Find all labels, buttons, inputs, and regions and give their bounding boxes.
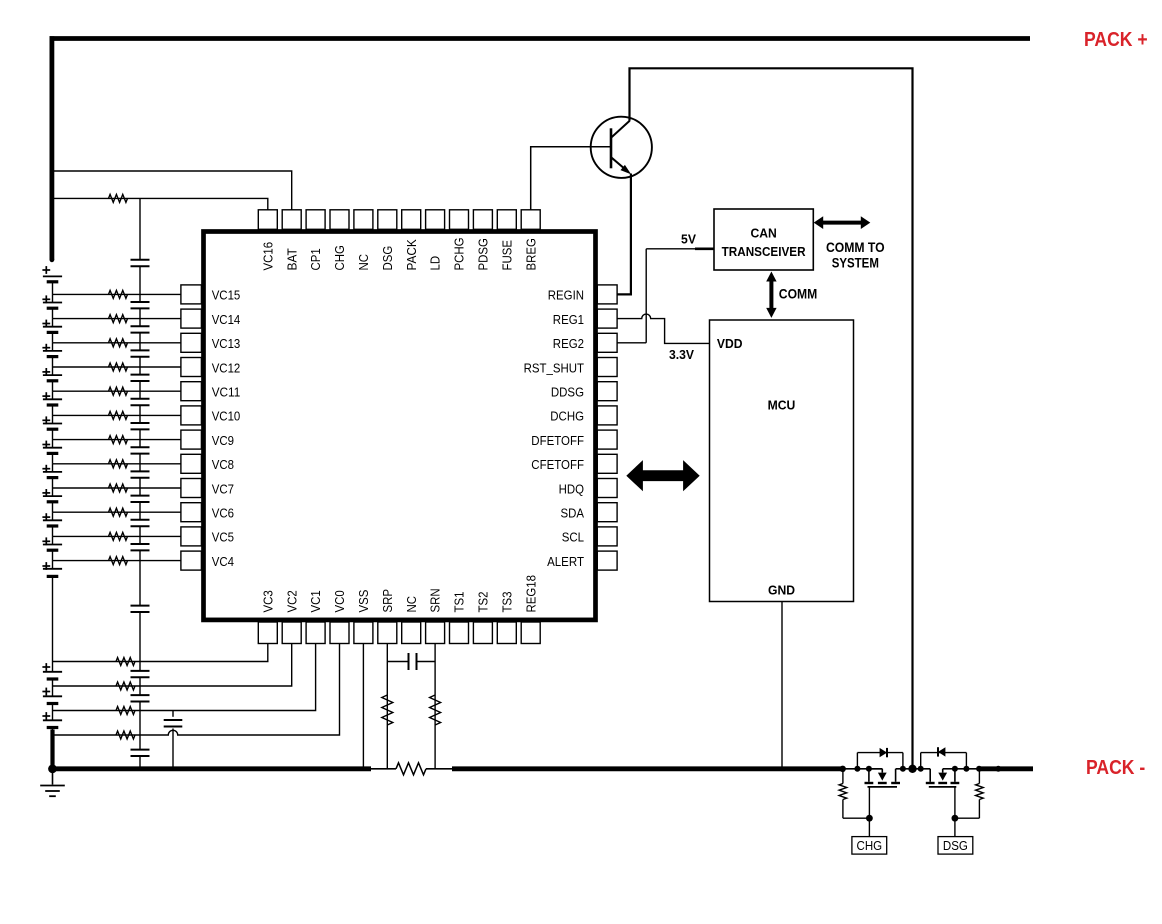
svg-text:VC1: VC1 [308, 590, 323, 612]
svg-text:PDSG: PDSG [476, 238, 491, 270]
wire: BAT net from stack top [52, 171, 292, 210]
wire: VC2 net [53, 644, 292, 687]
node: CHG diode anode tap [854, 766, 860, 772]
resistor: VC4 series input [109, 557, 128, 565]
arrow: digital interface IC-MCU (bidirectional, bold) [626, 460, 699, 491]
wire: VC12 net [53, 366, 181, 368]
pin DCHG (right) [597, 406, 617, 425]
svg-text:REGIN: REGIN [548, 288, 584, 303]
capacitor C2 (cell filter) [131, 301, 150, 303]
battery cell 5 [42, 540, 50, 542]
wire: VC5 net [53, 535, 181, 537]
svg-text:VC10: VC10 [212, 409, 241, 424]
svg-text:ALERT: ALERT [547, 554, 584, 569]
pin BAT (top) [282, 210, 301, 230]
pin ALERT (right) [597, 551, 617, 570]
pin VC14 (left) [181, 309, 202, 328]
svg-text:RST_SHUT: RST_SHUT [524, 360, 584, 375]
svg-text:SDA: SDA [561, 506, 585, 521]
svg-text:PACK +: PACK + [1084, 29, 1148, 51]
battery cell 3 [42, 666, 50, 668]
wire: DSG gate drive [954, 787, 956, 837]
svg-text:BAT: BAT [284, 248, 299, 270]
capacitor C6 (cell filter) [131, 398, 150, 400]
wire: MCU GND to rail [781, 602, 783, 769]
svg-text:MCU: MCU [768, 397, 796, 412]
battery cell 13 [42, 347, 50, 349]
svg-text:VDD: VDD [717, 336, 743, 351]
battery cell 15 [42, 298, 50, 300]
resistor: VC15 series input [109, 290, 128, 298]
pin VC0 (bottom) [330, 622, 349, 644]
pin DDSG (right) [597, 382, 617, 401]
wire: VC6 net [53, 511, 181, 513]
svg-text:VC3: VC3 [260, 590, 275, 612]
wire: stack bottom to PACK- rail (thick) [50, 730, 54, 769]
wire: PACK- rail (thick right section) [979, 766, 1033, 771]
svg-text:3.3V: 3.3V [669, 347, 694, 362]
svg-text:PACK: PACK [404, 239, 419, 270]
svg-text:COMM TO: COMM TO [826, 240, 885, 255]
capacitor C7 (cell filter) [131, 422, 150, 424]
label box CHG [852, 837, 887, 855]
svg-text:5V: 5V [681, 231, 696, 246]
transistor Q (DSG FET) [954, 769, 956, 782]
pin TS1 (bottom) [450, 622, 469, 644]
battery cell 6 [42, 516, 50, 518]
svg-text:DDSG: DDSG [551, 385, 584, 400]
battery cell 10 [42, 419, 50, 421]
pin VC7 (left) [181, 479, 202, 498]
resistor: VC2 series input [116, 682, 135, 690]
pin DSG (top) [378, 210, 397, 230]
wire: PACK+ top rail [50, 36, 1031, 41]
svg-text:DFETOFF: DFETOFF [531, 433, 584, 448]
wire: CHG gate drive [868, 787, 870, 837]
capacitor C8 (cell filter) [131, 446, 150, 448]
resistor: sense resistor RSNS [396, 763, 426, 775]
svg-text:TS1: TS1 [452, 592, 467, 613]
svg-text:VC4: VC4 [212, 554, 234, 569]
pin VC1 (bottom) [306, 622, 325, 644]
wire: SRP to rail [386, 644, 388, 769]
node: CHG gate resistor tap [840, 766, 846, 772]
svg-text:CP1: CP1 [308, 248, 323, 270]
svg-text:COMM: COMM [779, 286, 818, 301]
capacitor C12 (cell filter) [131, 543, 150, 545]
pin SRN (bottom) [426, 622, 445, 644]
pin PDSG (top) [473, 210, 492, 230]
diode: DSG FET body diode [920, 753, 922, 769]
node: DSG source tap [952, 766, 958, 772]
svg-text:VC5: VC5 [212, 530, 234, 545]
battery cell 1 [42, 715, 50, 717]
svg-text:NC: NC [356, 254, 371, 271]
arrow: COMM TO SYSTEM (bidirectional) [814, 216, 871, 229]
node: CHG diode cathode tap [900, 766, 906, 772]
battery cell 2 [42, 691, 50, 693]
capacitor C13 (cell filter) [131, 605, 150, 607]
wire: VSS to rail [362, 644, 364, 769]
wire: VC16 net [52, 198, 268, 209]
battery cell 12 [42, 371, 50, 373]
pin VC8 (left) [181, 454, 202, 473]
wire: BREG to base [531, 147, 611, 210]
wire: 5V to CAN transceiver [646, 248, 695, 250]
resistor: VC12 series input [109, 363, 128, 371]
svg-text:TS3: TS3 [499, 592, 514, 613]
resistor: SRP filter [382, 695, 393, 725]
capacitor C1 (cell filter) [131, 259, 150, 261]
diode: CHG FET body diode [856, 753, 858, 769]
capacitor C4 (cell filter) [131, 349, 150, 351]
pin VC5 (left) [181, 527, 202, 546]
svg-text:VC13: VC13 [212, 336, 241, 351]
pin VC16 (top) [258, 210, 277, 230]
svg-text:TRANSCEIVER: TRANSCEIVER [722, 244, 806, 259]
svg-text:VC11: VC11 [212, 385, 241, 400]
ground symbol [48, 764, 57, 773]
pin BREG (top) [521, 210, 540, 230]
svg-text:CFETOFF: CFETOFF [531, 457, 584, 472]
battery cell 14 [42, 323, 50, 325]
resistor: VC3 series input [116, 658, 135, 666]
pin PCHG (top) [450, 210, 469, 230]
transistor Q (CHG FET) [868, 769, 870, 782]
resistor: VC8 series input [109, 460, 128, 468]
pin VC10 (left) [181, 406, 202, 425]
svg-text:DSG: DSG [943, 838, 968, 853]
resistor: VC13 series input [109, 339, 128, 347]
resistor: DSG gate pulldown [955, 817, 980, 819]
wire: SRN to rail [434, 644, 436, 769]
pin HDQ (right) [597, 479, 617, 498]
pin VC6 (left) [181, 503, 202, 522]
svg-text:SYSTEM: SYSTEM [832, 256, 879, 271]
pin DFETOFF (right) [597, 430, 617, 449]
svg-text:REG1: REG1 [553, 312, 584, 327]
wire: rail thin through FETs [843, 768, 883, 770]
capacitor C11 (cell filter) [131, 519, 150, 521]
pin REG2 (right) [597, 333, 617, 352]
capacitor C16 (cell filter) [131, 749, 150, 751]
resistor: VC16 series input [109, 194, 128, 202]
capacitor C10 (cell filter) [131, 495, 150, 497]
svg-text:REG2: REG2 [553, 336, 584, 351]
svg-text:VC12: VC12 [212, 360, 241, 375]
wire: VC9 net [53, 439, 181, 441]
svg-text:VC16: VC16 [260, 242, 275, 271]
pin VC3 (bottom) [258, 622, 277, 644]
svg-text:VC7: VC7 [212, 481, 234, 496]
battery cell 16 (top of stack) [42, 269, 50, 271]
svg-text:HDQ: HDQ [559, 481, 584, 496]
resistor: VC10 series input [109, 411, 128, 419]
label box DSG [938, 837, 973, 855]
svg-text:PACK -: PACK - [1086, 757, 1145, 779]
pin REGIN (right) [597, 285, 617, 304]
wire: VC3 net [53, 644, 268, 662]
svg-text:NC: NC [404, 596, 419, 613]
pin SCL (right) [597, 527, 617, 546]
svg-text:SCL: SCL [562, 530, 584, 545]
svg-text:VC15: VC15 [212, 288, 241, 303]
wire: VC8 net [53, 463, 181, 465]
svg-text:GND: GND [768, 583, 795, 598]
node: rail node [995, 766, 1001, 772]
capacitor C15 (cell filter) [131, 694, 150, 696]
svg-text:VSS: VSS [356, 589, 371, 612]
node: CHG source tap [866, 766, 872, 772]
wire: VC15 net [53, 293, 181, 295]
pin SRP (bottom) [378, 622, 397, 644]
pin CHG (top) [330, 210, 349, 230]
node: DSG diode anode tap [963, 766, 969, 772]
wire: rail thin at sense resistor [371, 768, 396, 770]
svg-text:CHG: CHG [332, 245, 347, 270]
wire: VC1 net [53, 644, 316, 711]
wire: REG2 to 5V riser [617, 342, 646, 344]
battery cell 9 [42, 444, 50, 446]
pin TS2 (bottom) [473, 622, 492, 644]
battery cell 11 [42, 395, 50, 397]
pin TS3 (bottom) [497, 622, 516, 644]
battery cell 7 [42, 492, 50, 494]
pin LD (top) [426, 210, 445, 230]
node: DSG gate junction [952, 815, 959, 822]
svg-text:DCHG: DCHG [550, 409, 584, 424]
pin CP1 (top) [306, 210, 325, 230]
svg-text:REG18: REG18 [523, 575, 538, 613]
pin NC (top) [354, 210, 373, 230]
wire: VC4 net [53, 560, 181, 562]
resistor: VC0 series input [116, 731, 135, 739]
svg-text:PCHG: PCHG [452, 237, 467, 270]
arrow: COMM (bidirectional CAN-MCU) [766, 272, 776, 318]
pin VC2 (bottom) [282, 622, 301, 644]
node: DSG diode cathode tap [918, 766, 924, 772]
resistor: VC6 series input [109, 508, 128, 516]
svg-text:VC14: VC14 [212, 312, 241, 327]
op-amp U1: AFE monitor IC body [204, 232, 596, 620]
resistor: SRN filter [430, 695, 441, 725]
capacitor C3 (cell filter) [131, 325, 150, 327]
svg-text:SRN: SRN [428, 588, 443, 612]
svg-text:VC9: VC9 [212, 433, 234, 448]
wire: VC10 net [53, 414, 181, 416]
wire: battery stack positive vertical (left rail) [50, 36, 55, 260]
svg-text:TS2: TS2 [476, 592, 491, 613]
pin PACK (top) [402, 210, 421, 230]
svg-text:VC8: VC8 [212, 457, 234, 472]
pin NC (bottom) [402, 622, 421, 644]
pin SDA (right) [597, 503, 617, 522]
transistor Q1 (NPN pass) [591, 117, 652, 178]
pin VC13 (left) [181, 333, 202, 352]
pin VC4 (left) [181, 551, 202, 570]
wire: VC13 net [53, 342, 181, 344]
resistor: VC14 series input [109, 315, 128, 323]
capacitor C9 (cell filter) [131, 470, 150, 472]
resistor: VC9 series input [109, 436, 128, 444]
svg-text:VC0: VC0 [332, 590, 347, 612]
resistor: VC1 series input [116, 707, 135, 715]
pin VC11 (left) [181, 382, 202, 401]
svg-text:LD: LD [428, 256, 443, 271]
resistor: VC5 series input [109, 532, 128, 540]
wire: VC7 net [53, 487, 181, 489]
pin CFETOFF (right) [597, 454, 617, 473]
battery cell 8 [42, 468, 50, 470]
svg-text:SRP: SRP [380, 589, 395, 613]
node: DSG gate resistor tap [976, 766, 982, 772]
resistor: VC11 series input [109, 387, 128, 395]
pin REG18 (bottom) [521, 622, 540, 644]
svg-text:CHG: CHG [857, 838, 883, 853]
pin VC12 (left) [181, 358, 202, 377]
resistor: CHG gate pulldown [843, 817, 870, 819]
svg-text:VC6: VC6 [212, 506, 234, 521]
pin VC15 (left) [181, 285, 202, 304]
pin FUSE (top) [497, 210, 516, 230]
node: CHG gate junction [866, 815, 873, 822]
pin RST_SHUT (right) [597, 358, 617, 377]
pin VSS (bottom) [354, 622, 373, 644]
svg-text:DSG: DSG [380, 246, 395, 271]
svg-text:VC2: VC2 [284, 590, 299, 612]
resistor: VC7 series input [109, 484, 128, 492]
battery cell 4 [42, 565, 50, 567]
wire: VC14 net [53, 318, 181, 320]
pin REG1 (right) [597, 309, 617, 328]
wire: collector loop to FET midpoint [630, 68, 913, 769]
wire: cell-filter capacitor chain vertical [139, 198, 141, 768]
wire: REG1 to 3.3V MCU VDD (hops over 5V riser) [617, 314, 710, 343]
wire: PACK- rail (thick left section) [53, 766, 372, 771]
svg-text:FUSE: FUSE [499, 240, 514, 271]
capacitor: VC1 to rail (bottom-left) [172, 711, 174, 717]
svg-text:BREG: BREG [523, 238, 538, 270]
svg-text:CAN: CAN [750, 226, 776, 241]
capacitor C14 (cell filter) [131, 670, 150, 672]
capacitor C5 (cell filter) [131, 374, 150, 376]
wire: emitter to REGIN [617, 174, 631, 295]
capacitor: SRP-SRN filter [387, 661, 408, 663]
wire: PACK- rail (thick middle section) [452, 766, 843, 771]
MCU U3 [710, 320, 854, 602]
wire: VC0 net (hops over cap) [53, 644, 340, 736]
pin VC9 (left) [181, 430, 202, 449]
CAN transceiver U2 [714, 209, 813, 270]
node: FET midpoint (LD sense) [908, 765, 916, 773]
wire: VC11 net [53, 390, 181, 392]
